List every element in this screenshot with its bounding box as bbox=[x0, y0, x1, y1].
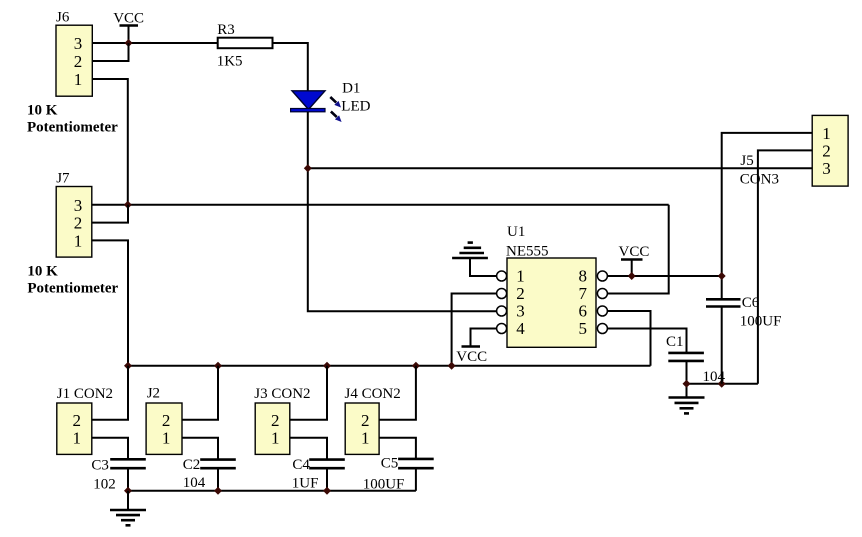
svg-text:3: 3 bbox=[74, 196, 83, 215]
svg-text:1: 1 bbox=[271, 429, 280, 448]
wire C1 node to J5 pin2 riser bbox=[687, 383, 758, 385]
junction dot bus x128 bbox=[124, 362, 132, 370]
wire J3 pin2 up to bus bbox=[290, 366, 327, 420]
wire U1 pin5 to C1 bbox=[607, 329, 686, 353]
wire J1 pin1 to C3 bbox=[92, 438, 128, 460]
svg-text:3: 3 bbox=[74, 34, 83, 53]
svg-text:2: 2 bbox=[361, 411, 370, 430]
bus wire mid bbox=[128, 365, 651, 367]
connector J5 bbox=[740, 115, 848, 187]
svg-text:VCC: VCC bbox=[619, 244, 650, 260]
wire C6 bottom bbox=[721, 307, 723, 384]
wire LED cathode down to U1 pin3 bbox=[308, 112, 497, 311]
junction dot C6 top bbox=[718, 272, 726, 280]
svg-text:NE555: NE555 bbox=[506, 243, 549, 259]
wire U1 pin4 to VCC below bbox=[471, 329, 497, 347]
svg-text:D1: D1 bbox=[342, 80, 360, 96]
wire J3 pin1 to C4 bbox=[290, 438, 327, 460]
wire R3 to LED anode bbox=[273, 43, 308, 91]
wire J5 pin1 down through C6 bbox=[722, 133, 813, 299]
junction dot C1 node bbox=[683, 380, 691, 388]
svg-text:J1 CON2: J1 CON2 bbox=[57, 386, 113, 402]
svg-text:1: 1 bbox=[73, 429, 82, 448]
svg-text:1: 1 bbox=[361, 429, 370, 448]
wire J7 pin2 bbox=[92, 205, 128, 223]
svg-text:2: 2 bbox=[74, 214, 83, 233]
power VCC below U1 pin4 bbox=[456, 347, 487, 366]
bottom bus wire bbox=[128, 490, 416, 492]
svg-text:C2: C2 bbox=[183, 457, 201, 473]
connector J3 bbox=[254, 386, 310, 454]
svg-text:J3 CON2: J3 CON2 bbox=[254, 386, 310, 402]
svg-text:2: 2 bbox=[271, 411, 280, 430]
wire J6 pin3 to R3 bbox=[92, 42, 217, 44]
wire U1 pin1 to inverted ground bbox=[470, 259, 497, 277]
svg-text:1: 1 bbox=[74, 70, 83, 89]
wire C5 to bottom bus bbox=[415, 468, 417, 491]
wire J7 pin1 down to bus bbox=[92, 240, 128, 365]
svg-text:5: 5 bbox=[578, 319, 587, 338]
svg-text:C3: C3 bbox=[91, 458, 109, 474]
svg-text:J7: J7 bbox=[56, 171, 70, 187]
svg-text:J5: J5 bbox=[740, 153, 753, 169]
LED arrows bbox=[330, 97, 341, 122]
junction dot C6 bottom node bbox=[718, 380, 726, 388]
junction dot bottom bus x128 bbox=[124, 487, 132, 495]
svg-text:VCC: VCC bbox=[456, 349, 487, 365]
svg-text:C4: C4 bbox=[292, 457, 310, 473]
wire J7 pin3 long run to U1 pin7 riser bbox=[92, 204, 669, 206]
ground inverted above U1 pin1 bbox=[452, 243, 488, 258]
junction dot VCC node bbox=[125, 39, 133, 47]
svg-text:1: 1 bbox=[74, 231, 83, 250]
svg-text:1: 1 bbox=[516, 267, 525, 286]
wire U1 pin6 down to bus bbox=[607, 311, 650, 366]
svg-text:2: 2 bbox=[74, 52, 83, 71]
resistor R3 bbox=[217, 22, 273, 70]
wire J1 pin2 up to bus bbox=[92, 366, 128, 420]
capacitor C2 bbox=[183, 457, 236, 491]
svg-text:1: 1 bbox=[162, 429, 171, 448]
ground below C1 bbox=[669, 398, 705, 414]
wire J2 pin1 to C2 bbox=[182, 438, 218, 460]
svg-text:R3: R3 bbox=[217, 22, 235, 38]
svg-text:J6: J6 bbox=[56, 9, 70, 25]
wire J4 pin2 up to bus bbox=[379, 366, 416, 420]
svg-text:Potentiometer: Potentiometer bbox=[27, 120, 118, 136]
wire C1 to ground node bbox=[686, 361, 688, 397]
svg-text:1UF: 1UF bbox=[292, 476, 319, 492]
svg-text:3: 3 bbox=[822, 159, 831, 178]
svg-text:2: 2 bbox=[822, 141, 831, 160]
connector J2 bbox=[146, 386, 182, 455]
wire LED node to J5 pin3 bbox=[308, 167, 812, 169]
wire U1 pin2 down to bus bbox=[452, 294, 497, 366]
svg-text:C5: C5 bbox=[381, 456, 399, 472]
junction dot bus x218 bbox=[214, 362, 222, 370]
power VCC at U1 pin8 bbox=[619, 244, 650, 276]
svg-text:1K5: 1K5 bbox=[217, 54, 243, 70]
wire J6 pin1 down to J7 node bbox=[92, 79, 128, 205]
capacitor C4 bbox=[292, 457, 345, 491]
capacitor C6 bbox=[706, 295, 781, 330]
wire ground stem bottom left bbox=[127, 491, 129, 510]
svg-text:J2: J2 bbox=[147, 386, 160, 402]
svg-text:7: 7 bbox=[578, 284, 587, 303]
junction dot J7 node bbox=[124, 201, 132, 209]
svg-text:CON3: CON3 bbox=[740, 172, 779, 188]
svg-text:102: 102 bbox=[93, 477, 116, 493]
svg-text:8: 8 bbox=[578, 267, 587, 286]
svg-text:3: 3 bbox=[516, 302, 525, 321]
wire J6 pin2 bbox=[92, 43, 128, 61]
connector J4 bbox=[345, 386, 401, 454]
junction dot bus x415.9 bbox=[412, 362, 420, 370]
svg-text:C1: C1 bbox=[666, 334, 684, 350]
junction dot bottom bus x327 bbox=[323, 487, 331, 495]
svg-text:6: 6 bbox=[578, 302, 587, 321]
capacitor C1 bbox=[666, 334, 726, 385]
svg-text:2: 2 bbox=[162, 411, 171, 430]
junction dot pin8 VCC bbox=[628, 272, 636, 280]
connector J1 bbox=[57, 386, 113, 455]
label 10 K Potentiometer (J6) bbox=[27, 103, 118, 136]
svg-text:10 K: 10 K bbox=[27, 263, 58, 279]
svg-text:104: 104 bbox=[183, 475, 206, 491]
svg-text:100UF: 100UF bbox=[740, 314, 782, 330]
wire J4 pin1 to C5 bbox=[379, 438, 416, 459]
label 10 K Potentiometer (J7) bbox=[27, 263, 118, 296]
svg-text:10 K: 10 K bbox=[27, 103, 58, 119]
wire J2 pin2 up to bus bbox=[182, 366, 218, 420]
junction dot bus x327 bbox=[323, 362, 331, 370]
power VCC top bbox=[113, 10, 144, 43]
junction dot bottom bus x218 bbox=[214, 487, 222, 495]
connector J7 bbox=[56, 171, 92, 258]
svg-text:J4 CON2: J4 CON2 bbox=[345, 386, 401, 402]
junction dot bus x451.6 bbox=[448, 362, 456, 370]
svg-text:U1: U1 bbox=[507, 224, 525, 240]
wire C3 to bottom bus bbox=[127, 468, 129, 491]
wire C4 to bottom bus bbox=[326, 468, 328, 491]
svg-text:VCC: VCC bbox=[113, 10, 144, 26]
connector J6 bbox=[56, 9, 92, 96]
wire C2 to bottom bus bbox=[217, 468, 219, 491]
svg-text:Potentiometer: Potentiometer bbox=[27, 281, 118, 297]
wire J5 pin2 riser bbox=[758, 150, 812, 383]
svg-text:1: 1 bbox=[822, 124, 831, 143]
junction dot LED node bbox=[304, 164, 312, 172]
op-amp U1 NE555 bbox=[506, 224, 596, 347]
LED D1 bbox=[291, 91, 325, 112]
ground bottom left bbox=[110, 510, 146, 525]
label D1 LED bbox=[341, 80, 370, 114]
wire U1 pin7 riser bbox=[607, 205, 669, 294]
pin circles U1 bbox=[497, 271, 608, 334]
capacitor C3 bbox=[91, 458, 145, 493]
svg-text:LED: LED bbox=[341, 99, 370, 115]
svg-text:2: 2 bbox=[516, 284, 525, 303]
svg-text:4: 4 bbox=[516, 319, 525, 338]
capacitor C5 bbox=[363, 456, 434, 493]
wire U1 pin8 to C6 node bbox=[607, 275, 722, 277]
svg-text:2: 2 bbox=[73, 411, 82, 430]
